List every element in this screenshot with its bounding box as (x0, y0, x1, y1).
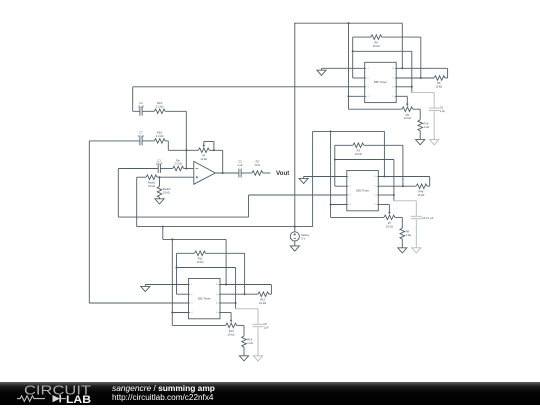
svg-text:3: 3 (368, 87, 369, 89)
svg-text:5: 5 (216, 312, 217, 314)
svg-text:1 kΩ: 1 kΩ (406, 233, 411, 237)
resistor R11 top C (177, 252, 195, 254)
ground ('C3', '0.1 µF', 'one') B (412, 248, 421, 253)
svg-text:7: 7 (374, 186, 375, 188)
wire VCC stair down (162, 227, 164, 240)
wire pin4 left C (172, 312, 188, 314)
svg-text:6: 6 (392, 87, 393, 89)
wire Rsub1 to VCC bus (136, 177, 138, 226)
svg-text:C1: C1 (158, 158, 162, 162)
wire pin VCC C (220, 284, 271, 286)
svg-text:10 kΩ: 10 kΩ (200, 157, 207, 161)
wire op-amp output (215, 172, 239, 174)
svg-text:10 kΩ: 10 kΩ (197, 260, 204, 264)
wire TRI feed A (352, 37, 354, 78)
wire R12 right lead C (270, 285, 272, 295)
wire OUT C to branch2 (88, 141, 90, 303)
resistor R12 right C (220, 293, 258, 295)
wire VCC horizontal bus (137, 226, 313, 228)
svg-text:R11: R11 (198, 257, 203, 261)
svg-text:555 Timer: 555 Timer (374, 80, 387, 84)
wire R4b right lead B (429, 177, 431, 187)
ground left B (299, 178, 308, 183)
potentiometer R13 C (172, 324, 225, 326)
resistor R5 top A (353, 36, 371, 38)
svg-text:Vout: Vout (276, 170, 289, 177)
wiper Rf (203, 142, 205, 147)
wire Rf wiper loop (204, 141, 214, 143)
ground left A (317, 70, 326, 75)
svg-text:4: 4 (368, 96, 369, 98)
ground ('C5', '1 µF', 'two') A (430, 140, 439, 145)
svg-text:Rin: Rin (176, 158, 180, 162)
svg-text:C7: C7 (139, 131, 143, 135)
capacitor ('C6', '1 µF', 'two') chain C (236, 308, 258, 310)
svg-text:C4: C4 (139, 101, 143, 105)
svg-text:10 µF: 10 µF (138, 105, 145, 109)
resistor R3 top B (335, 144, 353, 146)
svg-text:1 µF: 1 µF (440, 110, 446, 113)
wire pin THR C (220, 302, 236, 304)
wire VCC drop block A (401, 23, 403, 68)
wire GND pin1 C (145, 284, 188, 286)
potentiometer R7 B (331, 216, 384, 218)
svg-text:10 µF: 10 µF (138, 134, 145, 138)
ground R8 B (398, 248, 407, 253)
svg-text:R7: R7 (388, 221, 392, 225)
wire R6 right lead A (447, 68, 449, 78)
capacitor C2 (238, 169, 240, 178)
wire battery to ground (294, 241, 296, 246)
svg-text:R4b: R4b (419, 189, 424, 193)
svg-text:R10: R10 (424, 121, 429, 125)
svg-text:2: 2 (191, 294, 192, 296)
svg-text:battery: battery (301, 233, 310, 237)
wire OUT A to branch1 (133, 86, 365, 88)
svg-text:R8: R8 (406, 230, 410, 234)
wire branch2 corner (167, 141, 169, 150)
svg-text:1 µF: 1 µF (237, 163, 243, 167)
IC U-B 555 Timer box (347, 171, 379, 211)
svg-text:10 µF: 10 µF (156, 162, 163, 166)
wire R3 to DIS B (402, 145, 404, 186)
wire TRI feed C (176, 253, 178, 294)
op-amp OA1 (194, 161, 216, 184)
wire RESET bus A (348, 23, 350, 109)
pin stubs B (347, 176, 349, 178)
wire pin2 left C (177, 293, 189, 295)
svg-text:6: 6 (374, 195, 375, 197)
wire battery vertical (294, 23, 296, 232)
resistor Rin (173, 166, 184, 171)
resistor R6 right A (396, 77, 434, 79)
wire VCC to block C (163, 238, 226, 240)
ground battery (290, 246, 299, 251)
svg-text:4: 4 (191, 312, 192, 314)
wire VCC drop block C (225, 239, 227, 284)
svg-text:7: 7 (216, 294, 217, 296)
svg-text:10 kΩ: 10 kΩ (148, 184, 155, 188)
svg-text:10 kΩ: 10 kΩ (404, 116, 411, 120)
ground left C (141, 286, 150, 291)
wire pin THR A (396, 86, 412, 88)
svg-text:2.2 kΩ: 2.2 kΩ (156, 134, 164, 138)
svg-text:7: 7 (392, 78, 393, 80)
wire VCC bus vertical (312, 131, 314, 226)
wire feedback to output (222, 150, 224, 173)
svg-text:5: 5 (392, 96, 393, 98)
svg-text:C2: C2 (238, 159, 242, 163)
svg-text:Rin1: Rin1 (157, 131, 163, 135)
wire VCC top to block A (294, 22, 402, 24)
resistor R4b right B (378, 185, 416, 187)
svg-text:8: 8 (216, 284, 217, 286)
svg-text:2.2 kΩ: 2.2 kΩ (156, 105, 164, 109)
svg-text:5: 5 (374, 204, 375, 206)
wire pin THR B (378, 194, 394, 196)
CircuitLab logo (0, 382, 110, 405)
wire summing node vertical (185, 111, 187, 168)
svg-text:10 kΩ: 10 kΩ (259, 301, 266, 305)
svg-text:R9: R9 (406, 113, 410, 117)
resistor Rin2 (154, 109, 165, 114)
capacitor ('C3', '0.1 µF', 'one') chain B (394, 200, 416, 202)
ground Rsub2 (155, 199, 164, 204)
wire VCC to block B (313, 130, 385, 132)
input branch 1 (133, 110, 140, 112)
svg-text:8: 8 (392, 68, 393, 70)
svg-text:6: 6 (216, 303, 217, 305)
wire pin2 left A (353, 77, 365, 79)
wire pin CONT A (396, 95, 407, 97)
wiper R13 C (230, 313, 232, 322)
pin stubs C (189, 284, 191, 286)
wire pin2 left B (335, 185, 347, 187)
svg-text:10 kΩ: 10 kΩ (163, 190, 170, 194)
capacitor C7 (139, 137, 141, 146)
svg-text:1 kΩ: 1 kΩ (424, 125, 429, 129)
svg-text:R2: R2 (256, 159, 260, 163)
wire GND pin1 B (304, 176, 347, 178)
IC U-C 555 Timer box (189, 279, 221, 319)
svg-text:8: 8 (374, 176, 375, 178)
svg-text:R13: R13 (229, 329, 234, 333)
wire OUT B to branch3 (118, 216, 248, 218)
svg-text:3: 3 (191, 303, 192, 305)
wire THR vertical B (393, 160, 395, 201)
svg-text:R3: R3 (357, 149, 361, 153)
wire TRI-THR A (353, 50, 412, 52)
pin stubs A (365, 67, 367, 69)
wire R5 to DIS A (420, 37, 422, 78)
svg-text:555 Timer: 555 Timer (356, 188, 369, 192)
capacitor C4 (139, 107, 141, 116)
ground ('C6', '1 µF', 'two') C (253, 356, 262, 361)
svg-text:Rf: Rf (203, 154, 206, 158)
wire pin VCC B (378, 176, 429, 178)
svg-text:R5: R5 (375, 40, 379, 44)
svg-text:2: 2 (368, 78, 369, 80)
svg-text:Rsub2: Rsub2 (163, 187, 171, 191)
ground R14 C (239, 356, 248, 361)
wire to Vout (263, 172, 271, 174)
resistor Rsub2 (159, 177, 161, 186)
wire THR vertical A (411, 51, 413, 92)
svg-text:10 Ω: 10 Ω (255, 163, 261, 167)
wire pin CONT C (220, 312, 231, 314)
minus sign (196, 168, 199, 170)
svg-text:555 Timer: 555 Timer (198, 296, 211, 300)
plus sign (196, 176, 199, 178)
wire RESET bus B (330, 131, 332, 217)
svg-text:10 kΩ: 10 kΩ (386, 224, 393, 228)
wire TRI-THR B (335, 159, 394, 161)
wire VCC drop block B (383, 131, 385, 176)
svg-text:10 kΩ: 10 kΩ (355, 152, 362, 156)
svg-text:1: 1 (368, 68, 369, 70)
IC U-A 555 Timer box (365, 62, 397, 102)
wire pin4 left A (349, 95, 365, 97)
ground R10 A (416, 140, 425, 145)
resistor R14 vertical C (243, 325, 245, 336)
potentiometer Rf feedback (186, 149, 198, 151)
svg-text:10 kΩ: 10 kΩ (373, 44, 380, 48)
svg-text:1 kΩ: 1 kΩ (247, 341, 252, 345)
svg-text:3: 3 (350, 195, 351, 197)
svg-text:2: 2 (350, 186, 351, 188)
svg-text:1: 1 (191, 284, 192, 286)
svg-text:C3 0.1 µF: C3 0.1 µF (422, 216, 434, 220)
wire OUT C (89, 302, 188, 304)
potentiometer R9 A (349, 108, 402, 110)
svg-text:Rsub1: Rsub1 (148, 180, 156, 184)
wire pin VCC A (396, 67, 447, 69)
svg-text:R12: R12 (260, 297, 265, 301)
wire R11 to DIS C (244, 253, 246, 294)
input branch 3 (118, 168, 158, 170)
capacitor C1 (157, 164, 159, 173)
resistor R10 vertical A (419, 109, 421, 120)
resistor R8 vertical B (401, 217, 403, 228)
battery V1 5V (290, 232, 299, 241)
logo diode (53, 395, 61, 402)
wire GND pin1 A (322, 67, 365, 69)
wire TRI-THR C (177, 267, 236, 269)
wire pin4 left B (331, 204, 347, 206)
wire OUT B (249, 194, 347, 196)
svg-text:1 µF: 1 µF (264, 326, 270, 329)
svg-text:1: 1 (350, 176, 351, 178)
svg-text:Rin2: Rin2 (157, 101, 163, 105)
svg-text:2.2 kΩ: 2.2 kΩ (174, 162, 182, 166)
wire TRI feed B (334, 145, 336, 186)
resistor Rsub1 (137, 176, 146, 178)
wiper R7 B (388, 205, 390, 214)
resistor R2 output (252, 171, 263, 176)
svg-text:10 kΩ: 10 kΩ (228, 332, 235, 336)
svg-text:R6: R6 (437, 81, 441, 85)
input branch 2 (89, 140, 140, 142)
svg-text:4: 4 (350, 204, 351, 206)
svg-text:10 kΩ: 10 kΩ (417, 193, 424, 197)
wire pin CONT B (378, 204, 389, 206)
svg-text:5 V: 5 V (301, 236, 305, 240)
wiper R9 A (406, 96, 408, 105)
svg-text:10 kΩ: 10 kΩ (435, 85, 442, 89)
capacitor ('C5', '1 µF', 'two') chain A (412, 92, 434, 94)
svg-text:R14: R14 (247, 338, 252, 342)
wire THR vertical C (235, 268, 237, 309)
resistor Rin1 (154, 139, 165, 144)
logo resistor zigzag (17, 396, 45, 402)
svg-text:LAB: LAB (66, 394, 91, 405)
wire RESET bus C (171, 239, 173, 325)
